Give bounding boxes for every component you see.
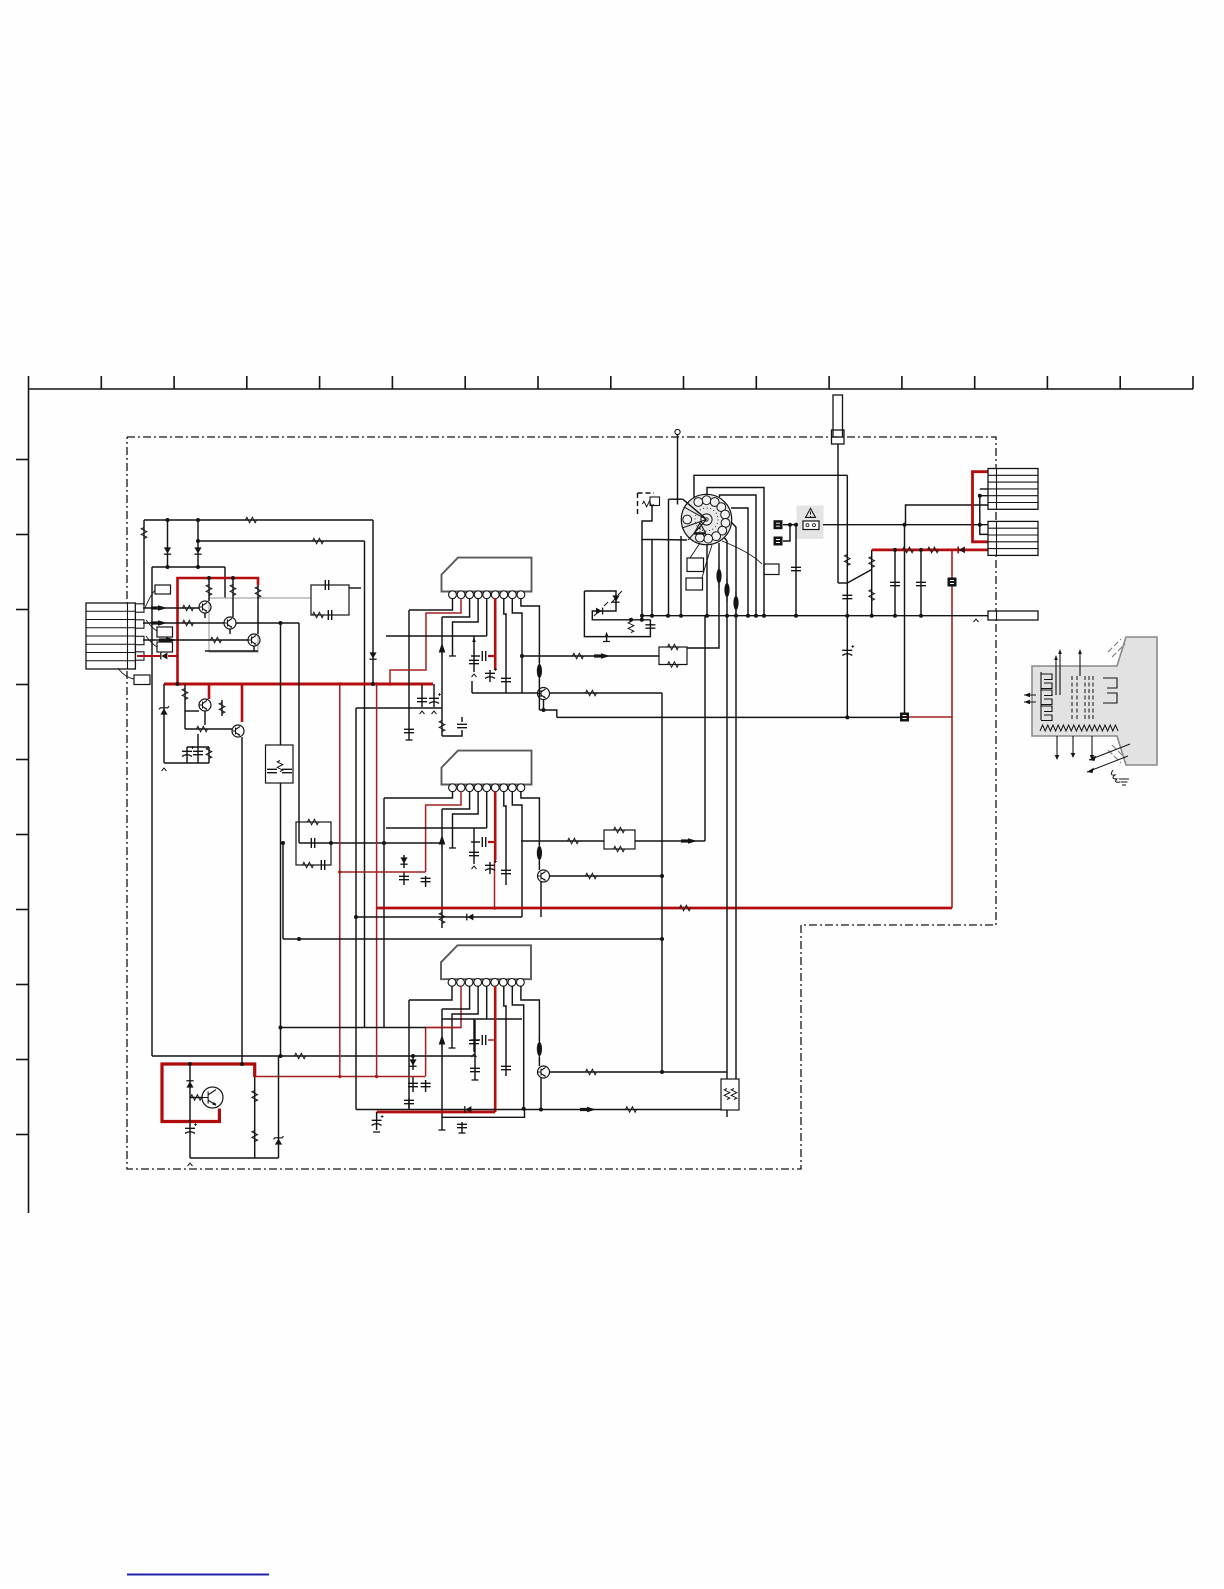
transistor Q604 (199, 699, 211, 711)
ferrite FB601 (537, 664, 542, 678)
wire (512, 791, 522, 917)
resistor R609 (255, 587, 261, 598)
node (522, 1107, 526, 1111)
bus3 (red) (377, 1111, 496, 1114)
component (948, 578, 957, 587)
diode D612 (959, 547, 965, 554)
wire (164, 762, 209, 764)
arrow (580, 1108, 587, 1111)
wire (408, 610, 410, 727)
resistor R607 (206, 585, 212, 596)
resistor R602 (141, 528, 147, 539)
IC IC603 (441, 945, 531, 979)
wire (452, 986, 478, 1048)
wire (364, 541, 366, 1028)
gray box2 (209, 605, 258, 652)
wire (441, 809, 443, 928)
reg loop (red) (162, 1064, 255, 1122)
open arrow (472, 1054, 477, 1057)
resistor box R625 (721, 1079, 739, 1110)
wire (668, 499, 670, 616)
wire (442, 730, 462, 736)
wire (706, 545, 708, 617)
capacitor C634 (916, 582, 926, 585)
node (660, 1070, 664, 1074)
wire (783, 525, 790, 541)
ground (459, 1132, 466, 1134)
wire (red) (494, 986, 497, 1112)
wire (red) (241, 684, 244, 722)
node (660, 937, 664, 941)
zener D605 (160, 708, 167, 714)
ground (472, 1079, 479, 1081)
wire (253, 646, 255, 651)
node (279, 1026, 283, 1030)
wire (372, 520, 374, 684)
capacitor C618 (421, 878, 431, 881)
warning triangle (806, 508, 816, 517)
bus nodes (640, 614, 644, 618)
diode D609 (465, 1106, 471, 1113)
wire (641, 616, 643, 620)
wire (190, 1097, 202, 1099)
ground (449, 655, 456, 657)
wire (642, 506, 658, 540)
capacitor C606 (457, 724, 467, 727)
node (893, 548, 897, 552)
wire (442, 986, 470, 1009)
ruler left line (28, 389, 30, 1213)
wire (278, 1056, 280, 1158)
capacitor C627 (470, 1068, 480, 1071)
wire (683, 499, 705, 518)
wire (355, 708, 357, 1110)
wire (521, 840, 604, 842)
wire (409, 598, 453, 610)
wire (641, 540, 643, 617)
wire (474, 1020, 476, 1080)
wire (151, 567, 153, 1056)
wire (473, 636, 475, 672)
capacitor C609 (485, 673, 495, 678)
wire (282, 843, 284, 939)
wire (539, 710, 556, 717)
resistor R632 (869, 557, 875, 568)
wire (409, 986, 452, 1000)
wire (198, 540, 365, 542)
transistor Q609 (202, 1087, 223, 1108)
connector CN601 (86, 603, 135, 669)
caution label (797, 506, 824, 540)
rotary switch S601 (681, 494, 731, 544)
connector CN604 (988, 611, 1038, 620)
node (660, 874, 664, 878)
wire (471, 841, 480, 843)
diode D608 (467, 914, 473, 921)
wire (386, 827, 487, 829)
open arrow (420, 711, 425, 714)
wire (538, 679, 540, 710)
ground (449, 1047, 456, 1049)
resistor R608 (230, 585, 236, 596)
wire (846, 616, 848, 717)
connector CN603 (988, 521, 1038, 555)
capacitor C636 (645, 625, 655, 628)
wire (197, 520, 199, 567)
wire (723, 536, 727, 541)
resistor R631 (845, 555, 851, 566)
wire (152, 1055, 475, 1057)
wire (687, 585, 719, 648)
wire (408, 1000, 410, 1110)
wire (635, 840, 705, 842)
resistor R614 (439, 721, 445, 732)
resistor R612 (219, 703, 225, 714)
ref box 8 (650, 497, 660, 506)
ferrite FB606 (733, 596, 738, 610)
resistor R633 (869, 590, 875, 601)
transistor Q605 (232, 725, 244, 737)
diode arrow (439, 645, 444, 659)
wire (442, 1109, 525, 1118)
wire (661, 693, 663, 1072)
ferrite FB603 (537, 1042, 542, 1056)
wire (651, 540, 653, 617)
capacitor C602 (182, 751, 192, 756)
node (903, 523, 907, 527)
wire (187, 746, 209, 748)
ferrite FB604 (716, 569, 721, 583)
terminal (675, 429, 680, 434)
resistor R634 (903, 547, 914, 553)
transistor Q603 (248, 634, 260, 646)
node (279, 621, 283, 625)
wire (283, 938, 662, 940)
wire (471, 681, 473, 693)
open arrow (974, 619, 979, 622)
wire (512, 986, 523, 1109)
wire (521, 986, 540, 1041)
resistor R636 (628, 622, 634, 633)
wire (232, 578, 234, 583)
wire (473, 1019, 475, 1052)
connector CN601 pins (135, 604, 144, 612)
wire (167, 520, 169, 567)
capacitor C607 (469, 660, 479, 663)
wire (538, 861, 540, 870)
wire (298, 623, 300, 843)
resistor R603 (313, 538, 324, 544)
wire (718, 543, 720, 585)
wire (254, 1077, 256, 1158)
IC IC602 (442, 751, 532, 785)
red link (973, 472, 989, 542)
capacitor box C601 (311, 585, 349, 615)
ref box 5 (687, 558, 704, 572)
power rail (red) (178, 578, 259, 684)
diode D610 (186, 1081, 193, 1087)
resistor R624 (680, 905, 691, 911)
bus (red) (376, 684, 378, 1076)
capacitor box C619 (296, 822, 331, 865)
wire (550, 875, 663, 877)
node (542, 708, 546, 712)
wire (152, 566, 225, 568)
wire (441, 617, 443, 736)
resistor R630 (643, 501, 654, 507)
capacitor C625 (421, 1083, 431, 1086)
wire (521, 598, 540, 663)
capacitor C620 (404, 1100, 414, 1103)
wire (red) (255, 1076, 426, 1078)
wire (red) (426, 986, 461, 1076)
arrow (472, 637, 476, 642)
capacitor C633 (890, 582, 900, 585)
IC IC601 (442, 558, 532, 592)
node (166, 518, 170, 522)
capacitor C614 (482, 837, 485, 847)
ruler top line (29, 388, 1194, 390)
capacitor C616 (501, 870, 511, 873)
resistor R629 (252, 1131, 258, 1142)
ref box 7 (764, 564, 779, 575)
wire (504, 598, 506, 693)
open arrow (162, 768, 167, 771)
resistor R604 (183, 605, 194, 611)
resistor R635 (928, 547, 939, 553)
wire (471, 655, 480, 657)
capacitor box C604 (266, 745, 294, 783)
open arrow (188, 1163, 193, 1166)
diode D601 (164, 547, 171, 553)
main bus (641, 615, 989, 617)
wire (208, 578, 210, 583)
feed (red) (872, 549, 988, 552)
wire (349, 587, 361, 589)
transistor Q606 (538, 688, 550, 700)
footer blue line (127, 1574, 269, 1576)
capacitor C605 (404, 729, 414, 732)
ground (1119, 779, 1129, 785)
board outline (dash-dot) (127, 437, 996, 1169)
resistor R620 (568, 838, 579, 844)
loop circuit2 (584, 591, 650, 637)
wire (red) (390, 598, 461, 684)
wire (168, 655, 178, 657)
capacitor C610 (501, 678, 511, 681)
wire (229, 629, 231, 634)
node red (338, 870, 341, 873)
resistor R626 (626, 1107, 637, 1113)
wire (680, 536, 682, 616)
wire (905, 505, 989, 525)
node (520, 654, 524, 658)
node red (338, 682, 342, 686)
wire (707, 488, 764, 617)
wire (538, 1057, 540, 1066)
transistor Q608 (538, 1066, 550, 1078)
open arrow (472, 674, 477, 677)
diode D603 (369, 652, 376, 658)
wire (512, 598, 522, 693)
wire (red) (909, 716, 952, 718)
wire (730, 521, 736, 527)
gray box (209, 598, 311, 652)
node (354, 915, 358, 919)
ref box 1 (155, 585, 171, 594)
ref box 4 (134, 675, 150, 685)
resistor R619 (586, 873, 597, 879)
node (196, 539, 200, 543)
component (774, 520, 783, 529)
connector CN602 (988, 469, 1038, 510)
capacitor C631 (842, 650, 852, 655)
wire (205, 650, 258, 652)
capacitor C632 (791, 567, 801, 570)
wire (224, 567, 226, 598)
node (297, 937, 301, 941)
wire (823, 524, 988, 526)
wire (669, 498, 683, 500)
capacitor C630 (842, 595, 852, 598)
ruler left ticks (16, 459, 29, 461)
wire (694, 475, 847, 498)
diode D613 (612, 595, 619, 601)
wire (486, 986, 488, 1019)
wire (143, 639, 248, 641)
wire (473, 828, 475, 864)
wire (658, 539, 687, 542)
wire (720, 495, 757, 616)
capacitor C617 (399, 876, 409, 879)
ground (439, 1129, 446, 1131)
battery symbol (803, 521, 819, 530)
wire (299, 842, 443, 844)
wire (472, 692, 538, 694)
wire (441, 1009, 443, 1130)
wire (783, 524, 799, 526)
wire (185, 728, 232, 730)
capacitor C603 (193, 751, 203, 754)
capacitor C624 (408, 1083, 418, 1086)
resistor R615 (586, 690, 597, 696)
node red (493, 906, 497, 910)
wire (550, 692, 663, 694)
wire (442, 598, 470, 617)
capacitor C628 (372, 1120, 382, 1125)
capacitor C608 (482, 651, 485, 661)
wire (204, 711, 206, 725)
capacitor C626 (457, 1124, 467, 1127)
resistor box R617 (659, 647, 687, 665)
loop circuit (584, 591, 650, 620)
wire (847, 570, 871, 584)
wire (197, 734, 199, 747)
wire (143, 607, 199, 609)
capacitor C622 (482, 1035, 485, 1045)
resistor R616 (573, 653, 584, 659)
ruler top ticks (28, 376, 30, 389)
resistor R605 (183, 620, 194, 626)
wire (red) (488, 1039, 495, 1041)
wire (726, 1110, 728, 1117)
diode D604 (161, 653, 167, 660)
capacitor C629 (185, 1128, 195, 1133)
wire (540, 881, 542, 917)
ground (373, 1131, 380, 1133)
IC IC603 pins (448, 979, 456, 987)
node (539, 1108, 543, 1112)
wire (453, 791, 479, 848)
node (845, 715, 849, 719)
wire (383, 798, 385, 1028)
wire (871, 550, 873, 616)
ref box 3 (157, 642, 173, 652)
node (629, 618, 633, 622)
wire (521, 791, 540, 845)
wire (red) (494, 860, 496, 908)
wire (236, 622, 299, 624)
zener D611 (275, 1138, 282, 1144)
wire (384, 791, 453, 798)
wire (486, 791, 488, 828)
wire (185, 710, 199, 712)
ferrite FB602 (537, 846, 542, 860)
wire (241, 737, 243, 1064)
capacitor C613 (469, 852, 479, 855)
wire (471, 1039, 480, 1041)
open arrow (472, 866, 477, 869)
wire (356, 1109, 721, 1111)
dashed mark (638, 492, 655, 494)
arrow (151, 621, 158, 624)
wire (red) (488, 655, 495, 657)
bus2 (red) (377, 907, 952, 910)
wire (red) (426, 1027, 461, 1029)
transistor Q602 (224, 617, 236, 629)
ref box 2 (157, 627, 173, 637)
diode D614 (596, 608, 602, 615)
IC IC602 pins (449, 784, 457, 792)
resistor R610 (182, 689, 188, 700)
wire (677, 435, 679, 505)
wire (281, 1027, 426, 1029)
wire (453, 598, 479, 656)
wire (504, 986, 506, 1076)
capacitor C612 (429, 698, 439, 703)
node (188, 1062, 192, 1066)
resistor R613 (206, 748, 212, 759)
resistor R627 (191, 1095, 202, 1101)
wire (red) (494, 598, 497, 670)
wire (540, 1077, 542, 1110)
capacitor C623 (501, 1066, 511, 1069)
wire (189, 1064, 191, 1158)
wire (red) (340, 871, 426, 873)
wire (red) (494, 791, 497, 860)
resistor R623 (295, 1053, 306, 1059)
wire (731, 508, 748, 616)
transistor Q607 (538, 870, 550, 882)
leader lines (118, 590, 157, 679)
resistor R611 (197, 726, 208, 732)
ferrite FB605 (724, 583, 729, 597)
component (774, 537, 783, 546)
node (329, 841, 333, 845)
transistor Q601 (199, 601, 211, 613)
bus (red) (339, 684, 341, 1076)
wire (143, 622, 224, 624)
